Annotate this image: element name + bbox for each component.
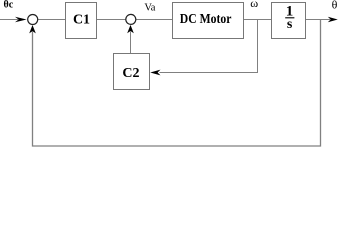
svg-text:ω: ω (250, 0, 258, 10)
svg-text:θc: θc (4, 0, 14, 11)
svg-text:Va: Va (144, 3, 155, 14)
svg-text:s: s (287, 17, 293, 32)
svg-text:θ: θ (332, 0, 338, 12)
svg-text:DC Motor: DC Motor (180, 12, 232, 27)
svg-text:C1: C1 (73, 12, 90, 27)
svg-text:C2: C2 (122, 66, 139, 81)
